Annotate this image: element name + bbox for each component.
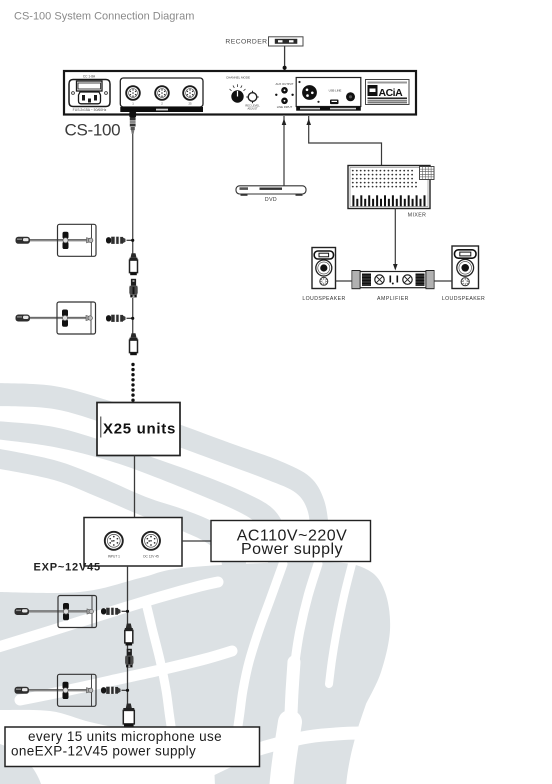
junction dot xyxy=(283,66,287,70)
final connector xyxy=(123,704,134,727)
wire amp to speakerR xyxy=(434,280,452,282)
arrowhead down into amp xyxy=(393,264,398,271)
mixer display block xyxy=(420,167,435,180)
svg-text:CS-100: CS-100 xyxy=(65,121,121,140)
microphone unit 2 xyxy=(16,302,96,334)
svg-text:LOUDSPEAKER: LOUDSPEAKER xyxy=(442,296,485,302)
mixer faders xyxy=(352,195,425,206)
inline connector male 1 xyxy=(129,279,137,298)
EXP DIN socket 2 xyxy=(142,532,160,559)
inline connector female 2 xyxy=(130,333,138,355)
black label bar under xlr box xyxy=(296,107,361,111)
white gap spiral inner descending arm xyxy=(146,603,171,726)
svg-text:X25 units: X25 units xyxy=(103,421,176,438)
svg-text:CHANNEL MODE: CHANNEL MODE xyxy=(226,76,250,80)
wire EXP to AC box xyxy=(182,540,211,542)
svg-text:FUS:2x15A ~ 50/60Hz: FUS:2x15A ~ 50/60Hz xyxy=(73,108,107,112)
swoosh band B3 xyxy=(0,448,246,566)
plug under unit socket1 xyxy=(129,112,136,135)
microphone unit 1 xyxy=(16,224,97,256)
svg-text:DC 12V 45: DC 12V 45 xyxy=(143,554,159,558)
DIN socket 25 xyxy=(183,86,197,105)
recorder box xyxy=(269,37,304,46)
svg-text:INPUT 1: INPUT 1 xyxy=(108,554,120,558)
right loudspeaker xyxy=(452,246,479,289)
white gap mid descending xyxy=(238,564,283,726)
wire recorder to unit xyxy=(284,46,286,70)
svg-text:CS-100 System Connection Diagr: CS-100 System Connection Diagram xyxy=(14,11,194,23)
wire EXP down through chain xyxy=(127,566,129,706)
trim control xyxy=(245,91,260,111)
arrowhead up into unit (dvd line) xyxy=(282,119,287,126)
swoosh lower mass xyxy=(0,562,390,784)
svg-text:oneEXP-12V45 power supply: oneEXP-12V45 power supply xyxy=(11,744,196,759)
swoosh corner piece bottom-left xyxy=(0,744,41,784)
svg-text:CC 1-8A: CC 1-8A xyxy=(83,75,96,79)
microphone unit 3 xyxy=(15,596,97,628)
svg-text:LOUDSPEAKER: LOUDSPEAKER xyxy=(302,296,345,302)
EXP DIN socket 1 xyxy=(105,532,123,559)
white gap spiral inner west arm xyxy=(0,582,218,649)
left loudspeaker xyxy=(312,248,336,289)
arrowhead up into unit (mixer line) xyxy=(306,119,311,126)
svg-text:Power supply: Power supply xyxy=(241,541,343,558)
DIN panel xyxy=(120,78,203,107)
DIN socket 1 xyxy=(126,86,140,105)
svg-text:AMPLIFIER: AMPLIFIER xyxy=(377,296,409,302)
swoosh band B2 xyxy=(0,421,288,565)
DIN socket 2 xyxy=(155,86,169,105)
svg-text:LINE INPUT: LINE INPUT xyxy=(277,105,293,109)
background swoosh watermark xyxy=(0,383,390,784)
swoosh band B1 xyxy=(0,383,329,565)
wire unit to DVD xyxy=(283,116,285,186)
inline connector male 3 xyxy=(125,649,133,668)
cable to mic2 xyxy=(132,298,134,335)
svg-text:USB LINE: USB LINE xyxy=(329,89,342,93)
svg-text:AUX OUTPUT: AUX OUTPUT xyxy=(275,82,293,86)
DVD player xyxy=(236,186,306,196)
white gap lower-left arm xyxy=(20,651,232,700)
wire mixer to amplifier xyxy=(394,209,396,269)
EXP-12V45 box xyxy=(84,518,182,567)
white gap far-right descending xyxy=(329,564,352,684)
microphone unit 4 xyxy=(15,674,97,706)
svg-text:ADJUST: ADJUST xyxy=(247,107,258,111)
amplifier xyxy=(352,271,434,289)
XLR connector xyxy=(302,85,317,100)
svg-text:MIXER: MIXER xyxy=(408,213,426,219)
svg-text:RECORDER: RECORDER xyxy=(225,38,267,45)
inline connector female 3 xyxy=(125,624,133,646)
mixer xyxy=(348,166,430,209)
svg-text:EXP~12V45: EXP~12V45 xyxy=(34,562,101,574)
black label bar xyxy=(120,107,203,112)
white gap bottom sweep xyxy=(210,733,358,770)
svg-text:DVD: DVD xyxy=(265,197,277,203)
svg-text:25: 25 xyxy=(188,101,192,105)
bottom note box xyxy=(5,727,260,767)
dotted continuation xyxy=(131,363,134,402)
trs jack xyxy=(346,92,355,101)
main cable down to mic1 xyxy=(132,134,134,254)
white gap right descending xyxy=(281,564,318,784)
wire unit to mixer xyxy=(309,116,382,166)
inline connector female 1 xyxy=(130,253,138,275)
X25 units box xyxy=(97,403,180,456)
wire X25 to EXP box xyxy=(134,456,136,518)
brand logo plate xyxy=(366,80,410,105)
xlr output box xyxy=(296,78,361,107)
IEC inlet xyxy=(69,80,110,107)
svg-text:ACiA: ACiA xyxy=(379,87,404,99)
AC power supply box xyxy=(211,521,371,562)
wire speakerL to amp xyxy=(336,280,353,282)
caret artifact xyxy=(100,417,102,438)
svg-text:every 15 units microphone use: every 15 units microphone use xyxy=(28,729,222,744)
mixer knob grid xyxy=(352,170,417,188)
CS-100 main unit xyxy=(64,71,416,115)
